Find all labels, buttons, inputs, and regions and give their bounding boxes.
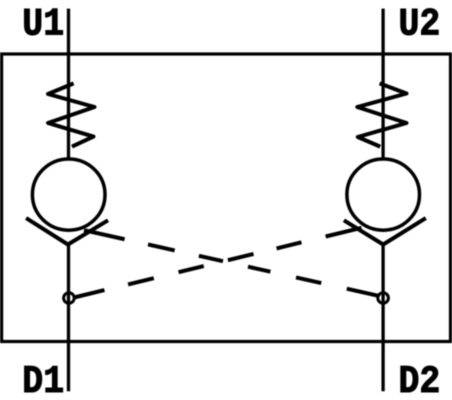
svg-text:U2: U2 [399,2,441,46]
svg-text:U1: U1 [22,2,64,46]
svg-text:D1: D1 [22,360,64,400]
svg-text:D2: D2 [399,360,441,400]
